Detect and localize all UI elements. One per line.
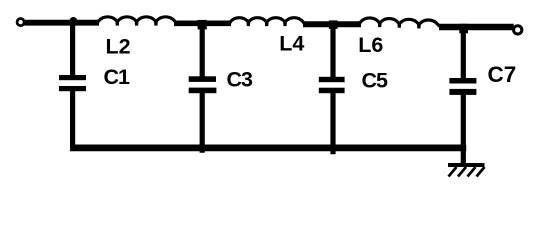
- node A junction dot: [70, 17, 78, 25]
- inductor L6: [359, 18, 440, 29]
- ground: [448, 163, 485, 177]
- capacitor C5: [319, 24, 345, 154]
- bottom rail wire: [70, 144, 466, 151]
- svg-text:C5: C5: [362, 69, 389, 93]
- svg-text:C3: C3: [227, 68, 254, 92]
- inductor L4: [229, 18, 304, 26]
- wire L2 to node B: [174, 20, 231, 26]
- inductor L2: [97, 17, 176, 26]
- node C junction: [329, 20, 338, 29]
- capacitor C3: [189, 23, 217, 153]
- node B junction: [198, 20, 207, 30]
- wire L6 to output: [439, 24, 514, 30]
- svg-text:L2: L2: [106, 34, 131, 58]
- wire input to node A: [25, 20, 100, 26]
- input terminal: [17, 19, 24, 26]
- svg-text:C1: C1: [104, 65, 131, 89]
- capacitor C7: [449, 26, 476, 165]
- capacitor C1: [59, 20, 86, 149]
- svg-text:C7: C7: [488, 62, 517, 87]
- svg-text:L4: L4: [279, 31, 304, 55]
- output terminal: [514, 26, 522, 34]
- svg-text:L6: L6: [358, 33, 383, 57]
- wire L4 to node C: [303, 21, 361, 27]
- node D junction: [459, 24, 468, 34]
